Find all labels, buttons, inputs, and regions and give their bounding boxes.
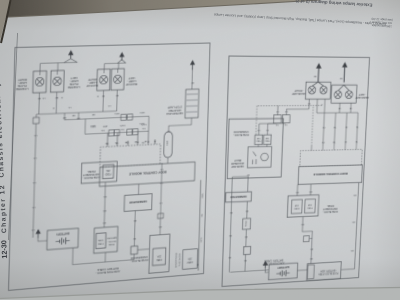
wire fuse battery to fuse block IP: [104, 182, 105, 227]
wire dashed harness main: [257, 104, 322, 106]
svg-text:B8: B8: [135, 140, 137, 142]
wire fjba up to K02B: [311, 231, 312, 263]
ground arrow battery: [35, 229, 41, 238]
relay contacts: [253, 152, 257, 165]
BCM pin stubs: [107, 139, 155, 146]
svg-text:RD: RD: [133, 237, 136, 239]
svg-text:RD: RD: [245, 209, 248, 211]
ground arrow headlamp left: [341, 62, 347, 83]
wire f150a to generator: [246, 201, 249, 218]
svg-text:LG: LG: [160, 168, 163, 170]
svg-text:DG: DG: [121, 128, 125, 130]
svg-text:A231: A231: [103, 125, 108, 128]
wire bus1 right drop: [63, 113, 65, 120]
svg-text:TN: TN: [333, 141, 336, 143]
node K02B right: [303, 236, 309, 242]
wire junction to fuse block underhood: [138, 248, 150, 251]
svg-text:K370: K370: [201, 237, 203, 243]
svg-text:HEADLAMP: HEADLAMP: [231, 165, 244, 168]
fuse FB5U 10A: [263, 135, 271, 145]
svg-text:RD: RD: [103, 209, 107, 211]
wire splice links: [259, 122, 286, 125]
splice box SB: [273, 115, 281, 123]
wire BCM main feed right: [341, 183, 359, 270]
svg-text:PK: PK: [321, 141, 324, 143]
wire lamp 2 ground lead: [56, 71, 58, 75]
wire headlamp left ground brace: [338, 85, 349, 91]
lamp CHMSL center high mounted stop lamp box: [185, 89, 199, 118]
splice box S4 on bus2: [109, 130, 114, 136]
svg-text:LG: LG: [33, 156, 36, 158]
svg-text:K305: K305: [202, 193, 204, 198]
svg-text:LG: LG: [257, 129, 260, 131]
wire BCM to oval connector: [167, 158, 169, 164]
svg-text:RD: RD: [102, 221, 106, 223]
svg-text:RD: RD: [202, 213, 204, 217]
svg-text:F6BU: F6BU: [256, 140, 261, 142]
ground arrow backup lamps: [119, 52, 125, 61]
svg-text:RD: RD: [243, 259, 246, 261]
wire battery cable bus: [73, 243, 135, 264]
wire ground brace license lamps: [64, 59, 77, 63]
wire bus1 to BCM pin: [148, 116, 150, 131]
fuse FB6U 10A: [255, 135, 263, 145]
wire bottom bus right: [232, 176, 248, 192]
svg-text:RD: RD: [353, 194, 356, 196]
svg-text:DG75: DG75: [120, 124, 125, 126]
svg-text:RD: RD: [103, 195, 107, 197]
svg-text:HEADLAMP: HEADLAMP: [355, 96, 369, 100]
wire lamp 3 ground lead: [103, 69, 105, 73]
svg-text:K410: K410: [90, 125, 96, 127]
splice box S6 on bus1: [121, 114, 126, 120]
svg-text:RD: RD: [244, 235, 247, 237]
wire k02b spur: [309, 238, 312, 240]
right diagram border frame: [222, 56, 370, 286]
svg-text:GENERATOR: GENERATOR: [129, 200, 147, 205]
svg-text:RD: RD: [167, 130, 170, 132]
svg-text:LG: LG: [42, 97, 45, 99]
svg-text:D2: D2: [105, 142, 108, 144]
svg-text:TN: TN: [333, 126, 336, 128]
svg-text:BK: BK: [191, 81, 194, 83]
module BCM body control module: [99, 162, 195, 186]
splice box SA: [282, 115, 290, 123]
svg-text:BACKUP: BACKUP: [126, 82, 137, 86]
wire battery ground lead right: [265, 268, 269, 272]
svg-text:RD: RD: [228, 234, 231, 236]
svg-text:LB: LB: [338, 107, 341, 109]
svg-text:RD: RD: [350, 249, 353, 251]
svg-text:BK: BK: [101, 94, 104, 96]
ground arrow battery right: [263, 260, 268, 268]
fuse block F-BAT outer: [94, 226, 118, 253]
svg-text:F3BU: F3BU: [187, 260, 193, 262]
svg-text:LG: LG: [266, 129, 269, 131]
pin labels BCM: [106, 140, 156, 145]
svg-text:LG: LG: [33, 181, 36, 183]
wire BCM main feed left diagram: [197, 180, 201, 271]
svg-text:FUSE BLOCK -: FUSE BLOCK -: [233, 133, 249, 135]
svg-text:DG75: DG75: [141, 123, 146, 125]
svg-text:LB: LB: [349, 107, 352, 109]
lamp L2 license plate left: [53, 77, 62, 86]
svg-text:RD: RD: [309, 257, 312, 259]
page bottom edge line: [0, 288, 400, 299]
svg-text:GENERATOR: GENERATOR: [230, 194, 246, 199]
svg-text:BATTERY: BATTERY: [277, 265, 289, 270]
wire battery to ground: [38, 237, 47, 242]
splice box S2 on bus2: [127, 129, 132, 135]
wire lamp3 drop: [102, 90, 105, 111]
svg-text:RD: RD: [295, 191, 298, 193]
svg-text:BLOCK -: BLOCK -: [107, 239, 116, 242]
wire lamp 4 ground lead: [117, 69, 119, 73]
lamp CHMSL hatching: [186, 94, 198, 112]
wire long right feed: [33, 114, 36, 237]
svg-text:F2BD: F2BD: [294, 207, 300, 209]
headlamp right box: [305, 82, 330, 99]
wire generator to BCM: [137, 184, 139, 194]
svg-text:(UNDERHOOD): (UNDERHOOD): [176, 252, 178, 267]
wire junction to generator: [133, 211, 136, 246]
svg-text:RD: RD: [352, 221, 355, 223]
svg-text:LG: LG: [284, 123, 287, 125]
connector oval C305: [164, 132, 173, 158]
wire relay to fuses: [258, 144, 267, 146]
fuse block F3BU box (underhood feed): [182, 249, 197, 269]
lamp headlamp left high: [345, 91, 353, 99]
wire lamp2 drop: [55, 92, 58, 113]
wire fuses outputs to splices: [259, 124, 268, 135]
svg-text:F1BD: F1BD: [307, 206, 313, 208]
wire left feed column right: [229, 177, 232, 272]
svg-text:B: B: [61, 96, 63, 98]
splice box S1 on bus2: [133, 129, 138, 135]
wire chmsl ground: [191, 68, 194, 90]
fuse block F-UH outer (underhood): [149, 234, 170, 273]
svg-text:B: B: [97, 95, 99, 97]
svg-text:B: B: [52, 106, 54, 108]
svg-text:LG: LG: [32, 206, 35, 208]
wire ground bus backup lamps: [104, 63, 125, 69]
wire headlamp right ground brace: [312, 82, 324, 86]
caption side block: [371, 17, 393, 29]
svg-text:LG: LG: [31, 228, 34, 230]
under-page corner area: [0, 0, 10, 41]
svg-text:BR: BR: [92, 113, 95, 115]
fuse FJBA 100A: [96, 233, 106, 249]
svg-text:BL: BL: [344, 126, 347, 128]
caption main line: [214, 13, 387, 27]
relay coil circle: [261, 153, 269, 161]
wire code labels mid band: [41, 93, 148, 148]
fuse F2BD 25A: [103, 164, 114, 178]
fuse FJBA right: [307, 265, 314, 279]
junction block J2 right: [243, 246, 250, 254]
battery symbol right: [276, 270, 290, 277]
svg-text:BK: BK: [55, 96, 59, 98]
battery symbol: [56, 237, 70, 245]
wire ground brace backup lamps: [117, 60, 125, 64]
wire high beam feed left lamp: [308, 99, 310, 109]
svg-text:HEADLAMP: HEADLAMP: [292, 92, 306, 96]
svg-text:BODY CONTROL MODULE: BODY CONTROL MODULE: [313, 171, 347, 176]
svg-text:RD: RD: [228, 256, 231, 258]
wire lamp harness bus: [36, 111, 116, 114]
left diagram border frame: [9, 43, 210, 290]
wire battery cable bus right: [230, 270, 269, 272]
splice box S5 on bus1: [127, 114, 132, 120]
svg-text:LG: LG: [108, 104, 111, 106]
svg-text:F5BU: F5BU: [264, 139, 269, 141]
svg-text:LICENSE: LICENSE: [16, 87, 29, 92]
svg-text:RD: RD: [301, 223, 304, 225]
svg-text:TE: TE: [356, 125, 359, 127]
wire bus 2 taps: [108, 131, 149, 141]
wire battery cable to fjba: [297, 264, 307, 271]
module BCM dashed connector outline: [100, 144, 161, 167]
wire lamp1 drop: [38, 93, 41, 115]
svg-text:LG: LG: [285, 110, 288, 112]
svg-text:F3BU: F3BU: [156, 258, 162, 261]
ground arrow headlamp right: [315, 63, 321, 82]
svg-text:LG: LG: [159, 201, 162, 203]
svg-text:BL: BL: [344, 140, 347, 142]
wire lamp 1 ground lead: [39, 71, 41, 75]
svg-text:C305: C305: [167, 140, 169, 146]
svg-text:PANEL: PANEL: [326, 204, 334, 207]
svg-text:BACKUP: BACKUP: [86, 84, 98, 89]
wire code labels right: [228, 102, 360, 264]
fuse block F-IP outer (instrument panel): [81, 161, 117, 183]
svg-text:BATTERY: BATTERY: [56, 231, 70, 236]
lamp L4 backup left box: [111, 69, 124, 91]
svg-text:UNDERHOOD: UNDERHOOD: [233, 130, 248, 132]
svg-text:C6: C6: [115, 141, 118, 143]
BCM right pin stubs: [311, 145, 356, 150]
fuse F150A box: [242, 218, 250, 229]
svg-text:LG: LG: [34, 134, 37, 136]
svg-text:RD: RD: [229, 211, 232, 213]
svg-text:DG: DG: [142, 127, 145, 129]
wire junction to f150: [245, 229, 248, 246]
wire code labels BCM feed left: [201, 193, 204, 242]
svg-text:INSTRUMENT: INSTRUMENT: [323, 207, 338, 211]
wire junction column: [244, 254, 247, 271]
lamp headlamp left low: [334, 91, 342, 99]
wire fuse underhood down to connector: [160, 163, 162, 235]
svg-text:G410: G410: [139, 111, 145, 113]
wire oval to chmsl: [169, 118, 192, 132]
svg-text:RD: RD: [309, 190, 312, 192]
svg-text:A4: A4: [124, 141, 127, 144]
battery B1: [47, 228, 79, 250]
svg-text:BR: BR: [72, 114, 75, 116]
wire bus1 link down: [84, 119, 86, 134]
lamp L1 license plate right box: [33, 71, 47, 93]
wire lamp feed bus right: [317, 99, 359, 113]
ground arrow license lamps: [68, 50, 74, 59]
wire fip outputs: [297, 184, 311, 195]
battery B2: [268, 263, 297, 280]
generator G1: [124, 194, 152, 212]
junction block J1 (battery cable): [131, 246, 138, 255]
headlamp left box: [331, 85, 357, 103]
svg-text:G410: G410: [114, 112, 120, 114]
svg-text:DG: DG: [101, 129, 105, 131]
svg-text:FUSE: FUSE: [108, 243, 114, 246]
fuse F2BD 20A right: [291, 199, 302, 213]
fuse block underhood big box right: [227, 118, 283, 178]
svg-text:PK: PK: [322, 126, 325, 128]
svg-text:BK: BK: [37, 97, 41, 99]
svg-text:LG: LG: [276, 110, 279, 112]
wire splice outputs: [277, 106, 309, 115]
lamp headlamp right high: [320, 86, 328, 94]
module BCM right: [298, 165, 363, 185]
caption line small top: [295, 0, 373, 8]
svg-text:TE: TE: [355, 140, 358, 142]
svg-text:RD: RD: [158, 225, 161, 227]
page bottom edge band: [0, 288, 400, 300]
svg-text:FUSE BLOCK: FUSE BLOCK: [179, 253, 181, 267]
svg-text:BK: BK: [246, 173, 249, 175]
label LG LG right: [275, 123, 287, 125]
page corner curve: [1, 0, 11, 43]
svg-text:PK: PK: [307, 102, 310, 104]
svg-text:BODY CONTROL MODULE: BODY CONTROL MODULE: [129, 170, 167, 176]
svg-text:F2BD: F2BD: [105, 172, 111, 174]
wire lamp feed columns right: [323, 113, 358, 146]
fuse block FJBA outer right: [307, 262, 342, 281]
fuse block F-IP right outer: [287, 195, 319, 217]
lamp L2 license plate left box: [50, 70, 64, 92]
svg-text:B6: B6: [147, 140, 149, 142]
wire fip feed from cable: [302, 216, 313, 231]
lamp L3 backup right box: [97, 69, 110, 91]
wire junction to fuse block battery: [104, 252, 106, 262]
ground arrow chmsl: [190, 60, 195, 70]
svg-text:RD: RD: [310, 248, 313, 250]
svg-text:RD: RD: [133, 219, 136, 221]
relay headlamp high beam box: [247, 147, 271, 168]
svg-text:X4: X4: [153, 140, 156, 142]
wire bus 1: [64, 116, 148, 120]
fuse F3BU 25A: [152, 248, 165, 266]
page top edge line: [0, 0, 320, 18]
lamp L3 backup right: [99, 75, 108, 84]
wire bus 2: [85, 131, 149, 134]
svg-text:LICENSE: LICENSE: [68, 85, 80, 90]
svg-text:BR: BR: [63, 116, 67, 118]
svg-text:LG: LG: [160, 182, 163, 184]
wire dashed harness drops: [256, 103, 322, 147]
module BCM right dashed outline: [300, 149, 362, 166]
splice box S3 on bus2: [114, 130, 119, 136]
node K02B connector: [33, 117, 39, 123]
generator G2: [226, 192, 252, 203]
header rule line: [9, 33, 18, 240]
svg-text:CENTER HIGH: CENTER HIGH: [166, 111, 183, 116]
svg-text:BR: BR: [77, 117, 80, 119]
svg-text:BK: BK: [313, 75, 316, 77]
lamp L4 backup left: [113, 75, 121, 84]
label BK specks headlamp grounds: [313, 75, 342, 79]
wire lamp4 drop: [116, 90, 119, 111]
wire code labels BCM feed: [350, 194, 356, 252]
svg-text:FJBA: FJBA: [98, 242, 104, 246]
wire ground bus license lamps: [40, 62, 77, 71]
wire code labels: [31, 81, 194, 247]
lamp headlamp right low: [308, 86, 316, 94]
fuse F1BD 20A: [305, 199, 316, 213]
wire harness to bus1: [77, 113, 79, 120]
svg-text:BK: BK: [115, 94, 118, 96]
svg-text:F150A: F150A: [244, 220, 247, 227]
node K02 connector: [158, 213, 164, 218]
lamp L1 license plate right: [35, 77, 44, 86]
svg-text:FUSE BLOCK (FJBA: FUSE BLOCK (FJBA: [318, 271, 338, 275]
svg-text:LG: LG: [68, 106, 71, 108]
svg-text:BK: BK: [339, 77, 342, 79]
svg-text:LG: LG: [275, 123, 278, 125]
